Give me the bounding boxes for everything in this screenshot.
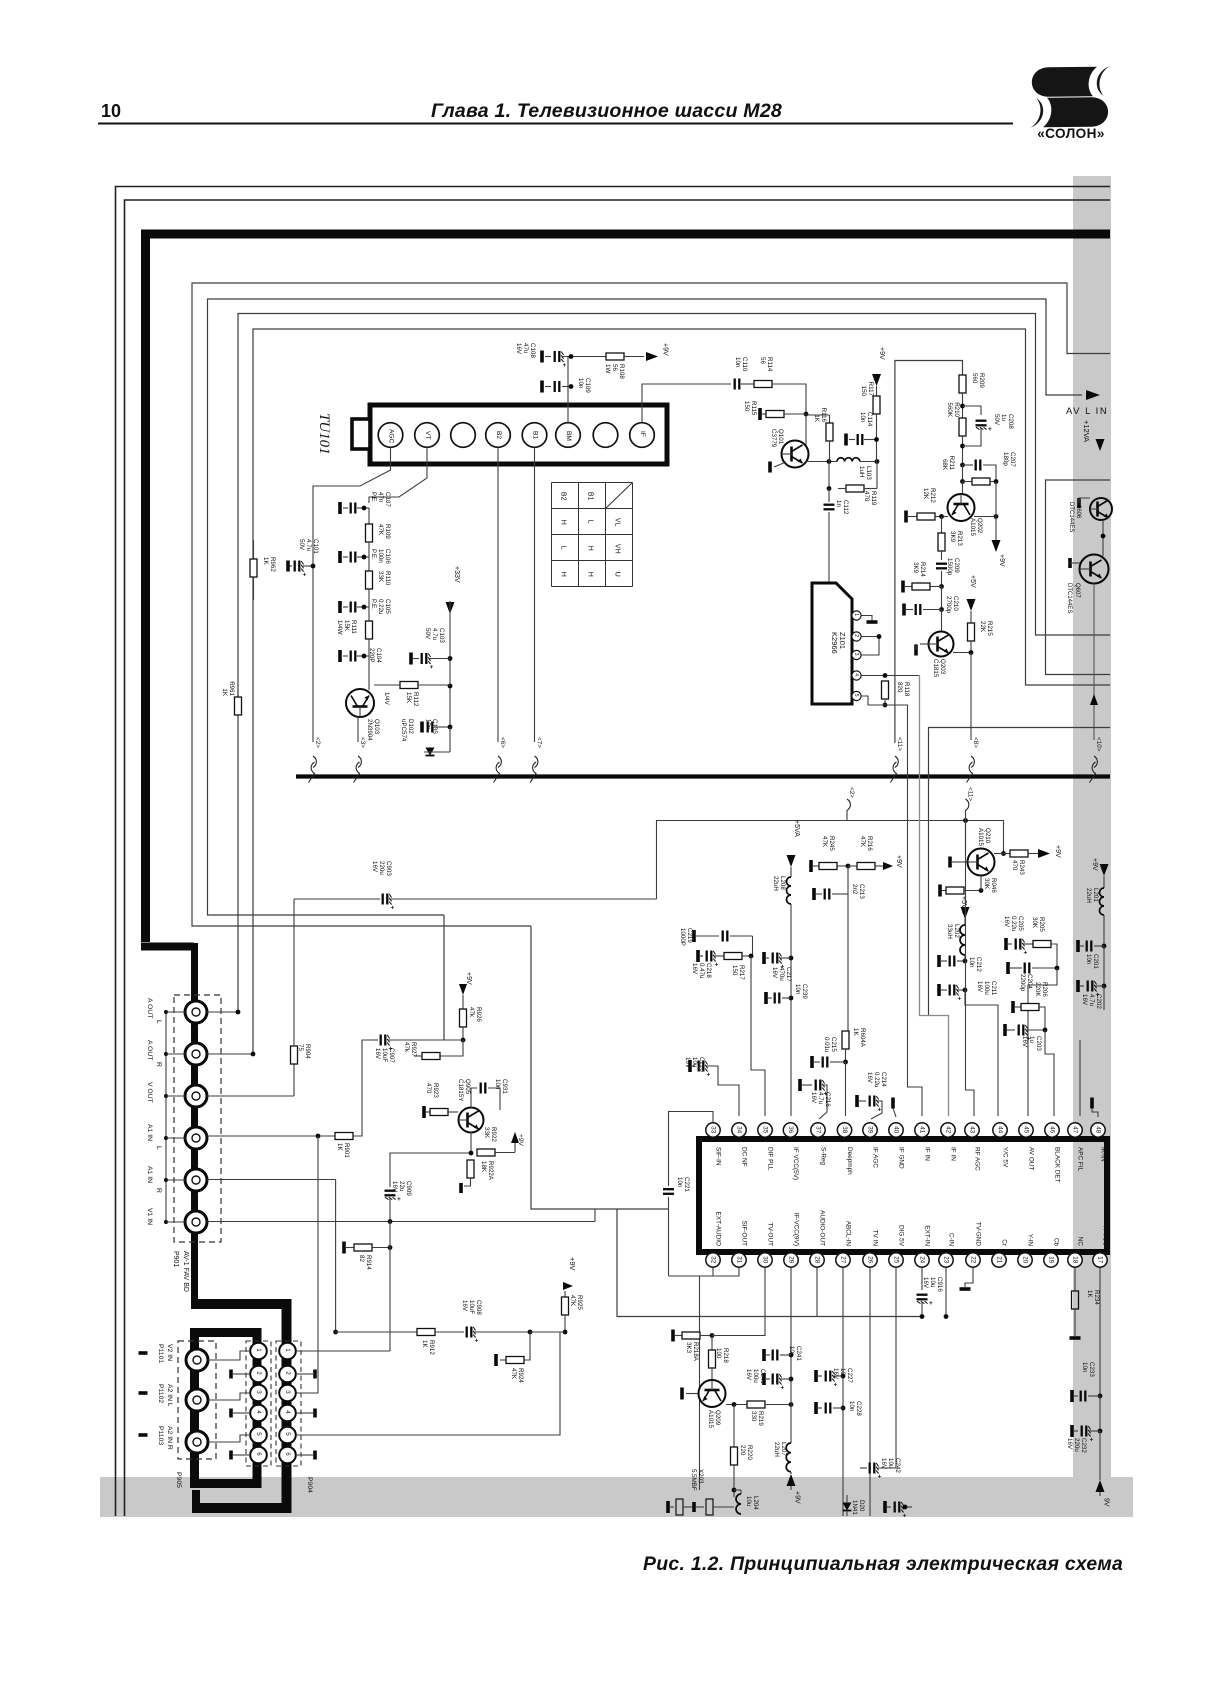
svg-text:47K: 47K xyxy=(821,836,828,848)
svg-text:1K: 1K xyxy=(336,1143,343,1151)
svg-text:AV OUT: AV OUT xyxy=(1027,1147,1034,1170)
svg-text:3: 3 xyxy=(255,1390,262,1394)
svg-text:S-Reg: S-Reg xyxy=(819,1147,826,1166)
svg-text:23: 23 xyxy=(943,1256,950,1263)
resistor R924 47K xyxy=(524,1332,530,1360)
svg-text:10n: 10n xyxy=(676,1177,683,1188)
svg-text:+9V: +9V xyxy=(465,972,472,985)
svg-text:B1: B1 xyxy=(532,431,539,439)
svg-text:22: 22 xyxy=(970,1256,977,1263)
TU101 pin nc xyxy=(451,423,476,448)
svg-text:1uH: 1uH xyxy=(858,466,865,477)
AV L IN arrow xyxy=(1086,390,1100,400)
IC pin 48 IK-IN xyxy=(1091,1123,1105,1137)
svg-text:16V: 16V xyxy=(684,1057,691,1069)
svg-text:3: 3 xyxy=(853,653,859,656)
resistor R604A 1K xyxy=(842,1031,849,1049)
resistor R218 100 xyxy=(711,1336,713,1351)
svg-text:10n: 10n xyxy=(734,357,741,368)
capacitor C101 4.7u 50V xyxy=(295,561,300,572)
capacitor C228 10n xyxy=(814,1402,818,1414)
svg-text:U: U xyxy=(614,572,621,577)
IC pin 22 TV-GND xyxy=(966,1253,980,1267)
svg-text:16V: 16V xyxy=(1003,916,1010,928)
svg-text:+: + xyxy=(1090,1437,1094,1444)
svg-text:560K: 560K xyxy=(946,403,953,418)
svg-text:33K: 33K xyxy=(483,1127,490,1139)
capacitor C203 1u 16V xyxy=(1003,1024,1007,1036)
svg-text:+: + xyxy=(303,572,307,579)
capacitor C201 10n xyxy=(1076,940,1080,952)
resistor R245 47K xyxy=(809,860,813,872)
svg-text:18: 18 xyxy=(1072,1256,1079,1263)
thick P905 connector frame xyxy=(195,1333,258,1484)
wire C211 node to pin44 xyxy=(965,990,998,1116)
IC pin 45 AV OUT xyxy=(1019,1123,1033,1137)
svg-text:9606: 9606 xyxy=(1075,505,1081,519)
wire V1 IN link xyxy=(594,1209,596,1222)
resistor R901 1K xyxy=(335,1133,353,1140)
resistor R914 82 xyxy=(342,1242,346,1254)
svg-text:16V: 16V xyxy=(880,1458,887,1470)
svg-text:P.E.: P.E. xyxy=(370,549,377,560)
pin42 feed wire from Z101 pin4 xyxy=(920,676,949,1117)
svg-text:P.E.: P.E. xyxy=(370,492,377,503)
svg-text:A1015: A1015 xyxy=(969,518,976,536)
svg-text:68K: 68K xyxy=(941,459,948,471)
svg-text:9V: 9V xyxy=(1103,1498,1110,1507)
wire rect around Q202 stage xyxy=(895,361,963,744)
IC pin 21 Cr xyxy=(992,1253,1006,1267)
svg-text:5: 5 xyxy=(255,1432,262,1436)
svg-text:17: 17 xyxy=(1097,1256,1104,1263)
TU101 side notch xyxy=(352,419,370,449)
svg-text:16V: 16V xyxy=(391,1181,398,1193)
svg-text:1K: 1K xyxy=(1086,1290,1093,1298)
svg-text:+: + xyxy=(707,1072,711,1079)
svg-text:27: 27 xyxy=(840,1256,847,1263)
svg-text:15K: 15K xyxy=(405,692,412,704)
+33V rail down xyxy=(449,614,451,727)
svg-text:A2 IN R: A2 IN R xyxy=(166,1426,173,1450)
Z101 pin 3 xyxy=(852,650,861,659)
svg-text:A1015: A1015 xyxy=(977,828,984,846)
wire C203 node to pin46 xyxy=(1045,1030,1054,1116)
svg-text:Глава 1. Телевизионное шасси М: Глава 1. Телевизионное шасси М28 xyxy=(431,100,782,122)
ground stub pin40 xyxy=(891,1098,895,1109)
resistor R218A 3K3 xyxy=(671,1330,675,1342)
svg-text:+: + xyxy=(988,426,992,433)
svg-text:820: 820 xyxy=(896,682,903,693)
diode D20 1N4148 xyxy=(843,1503,852,1511)
hook 3 xyxy=(357,717,359,742)
pin43 feed wire xyxy=(966,810,975,1116)
capacitor C218 0.47u 16V xyxy=(696,950,700,962)
svg-text:<11>: <11> xyxy=(967,787,974,801)
svg-text:L: L xyxy=(560,546,567,550)
svg-text:<3>: <3> xyxy=(359,737,366,748)
svg-text:2: 2 xyxy=(853,634,859,637)
wire P1103 to pins xyxy=(208,1435,250,1442)
svg-text:29: 29 xyxy=(788,1256,795,1263)
transistor Q607 DTC144ES xyxy=(1102,520,1104,556)
RCA jack A1 IN L xyxy=(185,1127,207,1149)
svg-text:1K: 1K xyxy=(262,557,269,565)
svg-text:36: 36 xyxy=(787,1126,794,1133)
svg-text:TV IN: TV IN xyxy=(871,1230,878,1247)
svg-text:6: 6 xyxy=(284,1452,291,1456)
Q202 collector node wire xyxy=(974,516,996,518)
svg-text:4: 4 xyxy=(853,673,859,676)
svg-text:3K3: 3K3 xyxy=(685,1342,692,1354)
resistor R117 150 xyxy=(872,374,881,386)
svg-text:IK-IN: IK-IN xyxy=(1099,1147,1106,1162)
svg-text:C-IN: C-IN xyxy=(947,1233,954,1247)
svg-text:1K: 1K xyxy=(813,414,820,422)
wire pin1 P904 net xyxy=(296,1350,390,1352)
C909 rail down to P904 pin1 wire xyxy=(389,1222,391,1352)
resistor R110 33K xyxy=(366,571,373,589)
svg-text:45: 45 xyxy=(1023,1126,1030,1133)
svg-text:180p: 180p xyxy=(1002,452,1009,466)
svg-text:22uH: 22uH xyxy=(1085,888,1092,903)
svg-text:75: 75 xyxy=(297,1044,304,1051)
Q203 emitter node xyxy=(953,652,971,654)
pin26 wire down xyxy=(869,1268,871,1516)
wire A1-L rail down to P904 pin3 xyxy=(296,1136,318,1393)
resistor R912 1K xyxy=(417,1329,435,1336)
IC pin 26 TV IN xyxy=(863,1253,877,1267)
thick stub bottom left xyxy=(192,1490,200,1513)
capacitor C105 0.22u P.E. xyxy=(338,601,342,613)
svg-text:1K: 1K xyxy=(421,1340,428,1348)
resistor R904 75 xyxy=(293,1046,295,1096)
TU101 pin B1 xyxy=(522,423,547,448)
svg-text:16V: 16V xyxy=(771,967,778,979)
wire VT to divider chain xyxy=(369,448,427,504)
header rule xyxy=(98,123,1013,125)
inductor L103 1uH xyxy=(837,458,860,462)
svg-text:SIF-OUT: SIF-OUT xyxy=(740,1220,747,1246)
svg-text:C1815: C1815 xyxy=(932,659,939,678)
wire C221 to pin31 xyxy=(669,1268,740,1276)
resistor R209 560 xyxy=(959,375,966,393)
svg-text:100: 100 xyxy=(715,1348,722,1359)
svg-text:39: 39 xyxy=(867,1126,874,1133)
resistor R046 30K xyxy=(938,885,942,897)
capacitor C213 2n2 xyxy=(847,866,849,894)
svg-text:AV-1 FAV BD: AV-1 FAV BD xyxy=(182,1251,189,1292)
svg-text:470: 470 xyxy=(1011,860,1018,871)
capacitor C240 100u 16V xyxy=(762,1373,766,1385)
svg-text:BM: BM xyxy=(565,431,572,441)
transistor Q103 2N3904 xyxy=(346,689,374,717)
svg-text:+9V: +9V xyxy=(662,343,669,356)
9V arrow bottom right xyxy=(1099,1431,1101,1480)
TU101 pin B2 xyxy=(486,423,511,448)
resistor R211 68K xyxy=(962,465,964,482)
transistor Q202 A1015 xyxy=(962,482,964,495)
pin 3 of P905 xyxy=(250,1385,267,1402)
svg-text:330: 330 xyxy=(750,1411,757,1422)
svg-text:DIF PLL: DIF PLL xyxy=(766,1147,773,1171)
transistor Q209 A1015 xyxy=(699,1380,726,1407)
P901 dashed box xyxy=(174,995,221,1242)
svg-text:1/4W: 1/4W xyxy=(336,620,343,635)
svg-text:IF GND: IF GND xyxy=(897,1147,904,1169)
resistor R205 30K xyxy=(1033,941,1051,948)
svg-text:A OUT: A OUT xyxy=(146,1040,153,1060)
capacitor C243 at band xyxy=(883,1501,887,1513)
svg-text:1500p: 1500p xyxy=(946,558,953,576)
V-OUT signal wire to Q210 xyxy=(657,821,1004,900)
svg-text:1n: 1n xyxy=(835,500,842,507)
wire V1 IN xyxy=(207,1221,595,1223)
resistor R210 560K xyxy=(959,418,966,436)
svg-text:IF: IF xyxy=(639,431,646,437)
pin28 wire xyxy=(816,1268,818,1317)
pin 4 of P904 xyxy=(279,1405,296,1422)
svg-text:33K: 33K xyxy=(377,571,384,583)
diode D102 uPC574 xyxy=(449,727,451,752)
capacitor C108 47u 16V xyxy=(540,351,544,363)
SOLON logo xyxy=(1031,66,1110,127)
svg-text:10: 10 xyxy=(101,101,121,121)
IC pin 23 C-IN xyxy=(939,1253,953,1267)
IC pin 34 DC NF xyxy=(732,1123,746,1137)
svg-text:DTC144ES: DTC144ES xyxy=(1068,502,1074,532)
pin29 wire down xyxy=(790,1268,792,1405)
IC pin 29 IF-VCC(9V) xyxy=(784,1253,798,1267)
transistor Q210 A1015 xyxy=(965,821,967,854)
svg-text:SIF-IN: SIF-IN xyxy=(714,1147,721,1166)
svg-text:34: 34 xyxy=(736,1126,743,1133)
svg-text:10n: 10n xyxy=(848,1401,855,1412)
wire A OUT R stub xyxy=(207,1053,253,1055)
IC U201 body xyxy=(699,1139,1107,1252)
svg-text:1: 1 xyxy=(853,613,859,616)
svg-text:560: 560 xyxy=(971,373,978,384)
stub bars on even pins xyxy=(233,1373,249,1375)
svg-text:H-VCC: H-VCC xyxy=(1101,1226,1108,1247)
IC pin 19 Cb xyxy=(1044,1253,1058,1267)
svg-text:P.E.: P.E. xyxy=(370,599,377,610)
pin22 ground xyxy=(965,1268,973,1287)
resonator Z101 KEP66 xyxy=(812,583,852,704)
svg-text:10n: 10n xyxy=(1081,1362,1088,1373)
Z101 pin 5 xyxy=(852,691,861,700)
RCA jack P1101 xyxy=(186,1349,208,1371)
svg-text:+: + xyxy=(715,962,719,969)
pin41 feed wire xyxy=(908,1087,923,1116)
svg-text:Y/C 5V: Y/C 5V xyxy=(1001,1147,1008,1168)
svg-text:4: 4 xyxy=(255,1410,262,1414)
svg-text:16V: 16V xyxy=(810,1092,817,1104)
svg-text:470: 470 xyxy=(425,1083,432,1094)
svg-text:+9V: +9V xyxy=(517,1134,524,1147)
IC pin 17 H-VCC xyxy=(1093,1253,1107,1267)
svg-text:16V: 16V xyxy=(515,343,522,355)
svg-text:43: 43 xyxy=(969,1126,976,1133)
resistor R116 1K xyxy=(829,415,831,423)
svg-text:10n: 10n xyxy=(1085,954,1092,965)
svg-text:AUDIO-OUT: AUDIO-OUT xyxy=(818,1210,825,1246)
IC pin 35 DIF PLL xyxy=(758,1123,772,1137)
svg-text:+5VA: +5VA xyxy=(793,820,800,837)
svg-text:P904: P904 xyxy=(306,1477,313,1493)
P904 pin column dashed xyxy=(276,1341,301,1466)
capacitor C110 10n series xyxy=(735,379,740,390)
svg-text:+33V: +33V xyxy=(453,566,460,583)
svg-text:DC NF: DC NF xyxy=(740,1147,747,1167)
capacitor C207 180p xyxy=(960,463,965,468)
svg-text:50V: 50V xyxy=(298,539,305,551)
pin18 R234 1K xyxy=(1074,1268,1076,1291)
svg-text:26: 26 xyxy=(867,1256,874,1263)
svg-text:RF AGC: RF AGC xyxy=(973,1147,980,1171)
svg-text:A1015: A1015 xyxy=(707,1410,714,1428)
svg-text:2n2: 2n2 xyxy=(851,884,858,895)
svg-text:3: 3 xyxy=(284,1390,291,1394)
pin 6 of P905 xyxy=(250,1447,267,1464)
svg-text:22uH: 22uH xyxy=(773,1442,780,1457)
svg-text:47K: 47K xyxy=(377,524,384,536)
svg-text:150: 150 xyxy=(860,386,867,397)
svg-text:EXT-AUDIO: EXT-AUDIO xyxy=(714,1212,721,1246)
svg-text:47K: 47K xyxy=(510,1368,517,1380)
svg-text:21: 21 xyxy=(996,1256,1003,1263)
resistor R114 56 xyxy=(754,381,772,388)
svg-text:150: 150 xyxy=(743,401,750,412)
Z101 pin 2 xyxy=(852,632,861,641)
svg-text:42: 42 xyxy=(945,1126,952,1133)
resistor R926 47k xyxy=(460,1009,467,1027)
svg-text:+9V: +9V xyxy=(878,347,885,360)
svg-text:+: + xyxy=(781,1385,785,1392)
wire B1 to hook 7 xyxy=(534,448,536,743)
resistor R119 470 xyxy=(846,485,864,492)
wire A1 IN L to R901 xyxy=(207,1135,335,1137)
svg-text:IF VCC(5V): IF VCC(5V) xyxy=(792,1147,799,1180)
svg-text:A1 IN: A1 IN xyxy=(146,1166,153,1183)
svg-text:2: 2 xyxy=(255,1371,262,1375)
capacitor C908 10uF 16V series xyxy=(467,1327,472,1338)
svg-text:B2: B2 xyxy=(560,492,567,501)
wire P1102 to pins xyxy=(208,1393,250,1400)
band table xyxy=(552,483,633,587)
svg-text:IF-VCC(9V): IF-VCC(9V) xyxy=(792,1213,799,1246)
svg-text:+: + xyxy=(397,1196,401,1203)
svg-text:L: L xyxy=(587,520,594,524)
svg-text:56: 56 xyxy=(759,357,766,364)
svg-text:22K: 22K xyxy=(979,621,986,633)
svg-text:40: 40 xyxy=(893,1126,900,1133)
svg-text:P1103: P1103 xyxy=(157,1426,164,1445)
svg-text:3K9: 3K9 xyxy=(949,531,956,543)
svg-text:82: 82 xyxy=(358,1255,365,1262)
capacitor C931 10n xyxy=(471,1088,477,1108)
wire A1-R rail down to R912 net xyxy=(335,1180,337,1333)
transistor Q606 DTC144ES xyxy=(1090,498,1112,520)
resistor R108 56 1W xyxy=(606,353,624,360)
svg-text:IF IN: IF IN xyxy=(923,1147,930,1161)
IC pin 25 DIG.5V xyxy=(889,1253,903,1267)
svg-text:1000P: 1000P xyxy=(679,928,686,946)
resistor R216 47K xyxy=(857,863,875,870)
Q209 emitter node xyxy=(726,1404,747,1406)
svg-text:10n: 10n xyxy=(794,984,801,995)
P1101 dashed box xyxy=(178,1341,216,1459)
svg-text:30K: 30K xyxy=(1031,917,1038,929)
wire pin30 down to R218 xyxy=(712,1268,765,1336)
svg-text:AGC: AGC xyxy=(388,429,395,444)
capacitor C114 10n xyxy=(844,434,848,446)
Q101 emitter ground xyxy=(774,462,786,467)
svg-text:P901: P901 xyxy=(172,1251,179,1267)
wire AGC to bus xyxy=(313,448,391,743)
IC pin 47 APC FIL xyxy=(1068,1123,1082,1137)
capacitor C202 4.7u 16V xyxy=(1103,946,1105,986)
svg-text:K2966: K2966 xyxy=(830,632,839,654)
IC pin 39 IF AGC xyxy=(863,1123,877,1137)
bus wire W1 descent to IC xyxy=(531,926,922,1317)
capacitor C208 1u 50V bypass xyxy=(963,406,982,415)
Z101 pin 1 xyxy=(852,611,861,620)
capacitor C215 0.01u xyxy=(810,1056,814,1068)
svg-text:TV-GND: TV-GND xyxy=(974,1222,981,1247)
svg-text:IF IN: IF IN xyxy=(949,1147,956,1161)
svg-text:10n: 10n xyxy=(788,1346,795,1357)
svg-text:A1 IN: A1 IN xyxy=(146,1124,153,1141)
wire A OUT L stub xyxy=(207,1011,238,1013)
svg-text:16V: 16V xyxy=(866,1072,873,1084)
svg-text:A2 IN L: A2 IN L xyxy=(166,1384,173,1407)
svg-text:1: 1 xyxy=(284,1348,291,1352)
svg-text:R: R xyxy=(155,1062,162,1067)
wire pin5 P904 net xyxy=(296,1332,560,1435)
svg-text:1N41: 1N41 xyxy=(851,1500,858,1515)
+9V arrow Q202 xyxy=(992,540,1001,552)
TU101 pin nc xyxy=(593,423,618,448)
IC pin 24 EXT-IN xyxy=(915,1253,929,1267)
capacitor C103 4.7u 50V xyxy=(409,653,413,665)
svg-text:VT: VT xyxy=(424,431,431,439)
svg-text:22uH: 22uH xyxy=(772,876,779,891)
wire y727 into strip xyxy=(929,728,1111,1016)
wire Q607 emitter down to hook 10 xyxy=(1093,584,1095,741)
wire L208 to pin36 xyxy=(790,904,792,1116)
TU101 pin AGC xyxy=(378,423,403,448)
svg-text:4: 4 xyxy=(284,1410,291,1414)
pin 6 of P904 xyxy=(279,1447,296,1464)
svg-text:220K: 220K xyxy=(1034,982,1041,997)
capacitor C227 10u 16V xyxy=(814,1370,818,1382)
svg-text:P1102: P1102 xyxy=(157,1384,164,1403)
svg-text:+: + xyxy=(878,1474,882,1481)
IC pin 20 Y-IN xyxy=(1018,1253,1032,1267)
svg-text:+9V: +9V xyxy=(568,1257,577,1271)
resistor R922A 18K xyxy=(467,1160,474,1178)
svg-text:24: 24 xyxy=(919,1256,926,1263)
IC pin 31 SIF-OUT xyxy=(732,1253,746,1267)
svg-text:APC FIL: APC FIL xyxy=(1076,1147,1083,1172)
wire P1101 to pins xyxy=(208,1351,250,1360)
svg-text:16V: 16V xyxy=(691,963,698,975)
svg-text:P1101: P1101 xyxy=(157,1344,164,1363)
RCA shield chain xyxy=(165,1012,167,1222)
svg-text:18K: 18K xyxy=(480,1161,487,1173)
svg-text:20: 20 xyxy=(1022,1256,1029,1263)
